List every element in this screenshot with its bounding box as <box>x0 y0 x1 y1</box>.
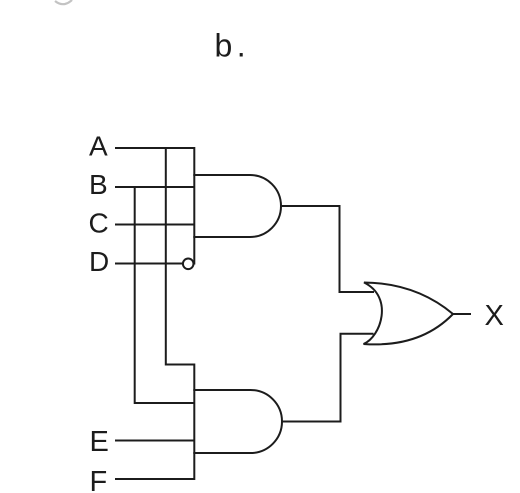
wire F into U2 bottom corner <box>115 452 194 479</box>
svg-text:X: X <box>485 300 504 332</box>
wire rail A down to U2 top corner <box>166 148 195 391</box>
wire E into U2 <box>115 440 194 442</box>
wire U2 output to OR bottom input <box>282 334 374 422</box>
svg-text:C: C <box>89 208 109 239</box>
svg-text:D: D <box>89 246 109 277</box>
svg-text:F: F <box>90 466 108 493</box>
svg-text:E: E <box>90 426 109 458</box>
svg-text:b.: b. <box>215 28 251 64</box>
and-gate U1 (top) <box>194 175 281 237</box>
and-gate U2 (bottom) <box>194 390 282 453</box>
wire A into U1 top corner <box>115 148 194 176</box>
wire U1 output to OR top input <box>281 206 374 292</box>
svg-text:A: A <box>89 131 108 162</box>
stray cropped mark at top edge <box>55 0 72 4</box>
svg-text:B: B <box>89 169 108 200</box>
wire D to inverter bubble <box>115 263 183 265</box>
wire C into U1 <box>115 224 194 226</box>
wire rail B down to U2 <box>135 187 195 403</box>
wire X output <box>453 313 471 315</box>
wire B into U1 <box>115 186 194 188</box>
inverter bubble on D input, riser into U1 <box>183 236 194 269</box>
or-gate U3 <box>364 283 454 345</box>
